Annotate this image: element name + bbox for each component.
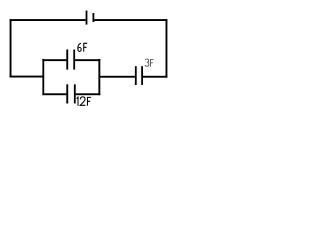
label 3F [145,59,154,67]
capacitor C3 3F right plate [141,66,143,85]
capacitor C1 6F left plate [66,50,68,70]
battery V1 left plate (long) [86,11,88,25]
wire left vertical [10,19,12,77]
wire bottom branch right [76,93,101,95]
wire top-right segment [94,19,167,21]
wire right vertical [166,19,168,78]
wire top branch left [42,59,66,61]
node left junction connector [42,59,44,95]
wire top-left segment [10,19,86,21]
node right junction connector [98,59,100,95]
wire middle-right segment b [143,76,167,78]
wire top branch right [75,59,100,61]
label 6F [78,43,87,52]
wire bottom branch left [42,93,66,95]
battery V1 right plate (short) [93,13,95,22]
wire middle-right segment a [98,76,134,78]
label 12F [77,97,91,106]
capacitor C3 3F left plate [135,66,137,85]
capacitor C2 12F left plate [66,84,68,103]
capacitor C1 6F right plate [73,50,75,70]
wire middle-left segment [10,76,45,78]
capacitor C2 12F right plate [74,84,76,103]
